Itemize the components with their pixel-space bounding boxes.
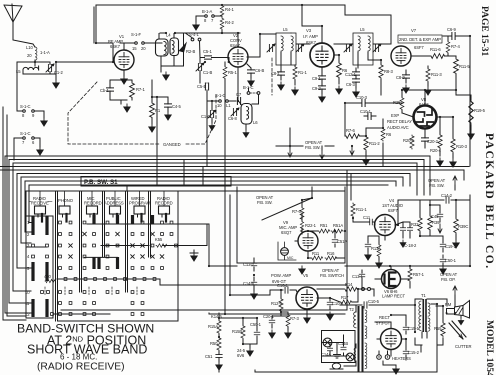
labels misc [237, 348, 246, 358]
svg-text:2ND. DET. & EXP. AMP: 2ND. DET. & EXP. AMP [399, 37, 441, 42]
resistor R11-2 [363, 136, 381, 165]
svg-text:C6-B: C6-B [255, 68, 264, 73]
switch blade diagonal [262, 187, 312, 220]
tube V3 [303, 28, 334, 67]
svg-text:C8-9: C8-9 [396, 75, 405, 80]
open at pb op label [440, 272, 458, 282]
tube V9 [279, 220, 318, 251]
variable capacitor C1-C [201, 101, 216, 130]
resistor R55 [155, 237, 167, 247]
button feed stubs [40, 191, 164, 206]
capacitor C50-2 [422, 129, 439, 148]
svg-text:C12-1: C12-1 [345, 72, 357, 77]
bus wire 5 [0, 170, 464, 180]
capacitor C6-B [247, 64, 264, 86]
resistor R14 [344, 282, 357, 291]
resistor R7-1 [130, 82, 146, 100]
ground [193, 22, 199, 30]
capacitor C13-1 [352, 270, 365, 282]
resistor R11-2t [425, 66, 443, 95]
matrix ground [190, 250, 198, 261]
tube V5 [296, 287, 318, 309]
column header radio record [155, 196, 173, 206]
matrix rails [26, 224, 347, 314]
resistor R22-1 [300, 221, 316, 233]
capacitor C12-1 [345, 68, 360, 79]
svg-text:C11: C11 [363, 215, 371, 220]
svg-text:R57-1: R57-1 [413, 272, 425, 277]
open at pb sw label right [428, 176, 457, 190]
right margin text [479, 6, 495, 375]
matrix box col2-6 [56, 191, 179, 321]
svg-text:P.B. SWITCH: P.B. SWITCH [320, 273, 344, 278]
transformer T2 secondary winding [365, 310, 367, 369]
resistor R25 [393, 90, 404, 113]
wire [110, 80, 132, 104]
bottom ground bus [219, 304, 437, 372]
svg-text:AUDIO AVC: AUDIO AVC [387, 125, 409, 130]
capacitor C5-E [197, 83, 209, 101]
contact row 8 [59, 302, 62, 305]
top bus wire [94, 5, 345, 62]
heaters label [377, 351, 411, 361]
push button 4 [110, 206, 121, 222]
svg-text:RECT: RECT [379, 315, 391, 320]
push button switch matrix [25, 191, 347, 321]
label box 2nd det [398, 35, 442, 50]
svg-text:EXP: EXP [391, 113, 399, 118]
svg-text:(RADIO RECEIVE): (RADIO RECEIVE) [37, 362, 125, 373]
svg-text:LAMP RECT: LAMP RECT [382, 294, 406, 299]
closed contact bars top [31, 216, 34, 235]
svg-text:B-1-C: B-1-C [243, 85, 254, 90]
svg-text:C15-1: C15-1 [408, 326, 420, 331]
resistor R51A [331, 223, 343, 233]
capacitor C8-1 [271, 65, 285, 90]
wire left feeders [17, 62, 35, 111]
resistor R7-6v [292, 207, 304, 220]
capacitor C10-5a [327, 298, 344, 320]
svg-text:6SA7: 6SA7 [230, 43, 241, 48]
svg-text:6SK7: 6SK7 [110, 44, 121, 49]
svg-text:R55: R55 [434, 326, 442, 331]
wire drop R5-1 to cluster [224, 84, 226, 195]
ground cluster [247, 348, 253, 356]
svg-text:R50: R50 [210, 341, 218, 346]
svg-text:T1: T1 [421, 293, 426, 298]
svg-text:V5: V5 [303, 273, 309, 278]
svg-text:C50-1: C50-1 [445, 258, 457, 263]
svg-text:B-1-A: B-1-A [202, 9, 213, 14]
open at pb sw label top [276, 128, 334, 159]
svg-text:R11-3: R11-3 [431, 72, 442, 77]
svg-text:R7-6: R7-6 [292, 209, 301, 214]
svg-text:15: 15 [132, 46, 137, 51]
capacitor C6-9 [443, 27, 470, 40]
variable resistor R2-B [161, 34, 195, 73]
microphone [278, 242, 296, 260]
svg-text:C50-1: C50-1 [250, 322, 262, 327]
wire L5a to V3 [291, 33, 310, 44]
resistor R19-5 [468, 100, 486, 139]
capacitor C14A [329, 343, 331, 348]
svg-text:C6-9: C6-9 [447, 27, 456, 32]
wire [35, 60, 56, 74]
svg-text:C-18-2: C-18-2 [404, 243, 417, 248]
svg-text:P.B. SW.: P.B. SW. [257, 200, 272, 205]
matrix top rail [26, 191, 178, 216]
closed contact bars col1 bottom [31, 299, 34, 317]
contact row 2 [59, 233, 62, 236]
svg-text:R1-1: R1-1 [298, 70, 307, 75]
svg-text:R15B: R15B [232, 329, 242, 334]
ground [53, 80, 59, 88]
wires V5 left [272, 290, 297, 316]
svg-text:20: 20 [27, 53, 32, 58]
resistor R11-1 [351, 203, 367, 217]
capacitor C9-1 under V3 [312, 67, 326, 86]
resistor 400 ohm [44, 274, 55, 283]
wires V6 [362, 266, 410, 288]
wires power section [415, 299, 447, 345]
wire drop bus corners [184, 160, 203, 187]
svg-text:20: 20 [141, 46, 146, 51]
trimmer cap left of L5a [267, 44, 275, 52]
ground V5 [304, 309, 310, 323]
tube V8 eye [414, 97, 437, 129]
closed contact bars mid [92, 257, 95, 269]
wire V3 to L5b [334, 44, 353, 55]
tube V6 [382, 270, 406, 299]
series capacitor C14-2 [398, 193, 470, 225]
svg-text:C16-1: C16-1 [277, 283, 289, 288]
svg-text:6 - 18 MC.: 6 - 18 MC. [60, 353, 97, 362]
resistor R11-6 [411, 47, 448, 58]
svg-text:S-1-C: S-1-C [20, 104, 31, 109]
capacitor C19-1 [440, 240, 456, 252]
push button 5 [134, 206, 145, 222]
svg-text:V3: V3 [306, 28, 312, 33]
capacitor C18-2 [400, 222, 406, 247]
svg-text:C1-B: C1-B [203, 70, 212, 75]
svg-text:RECORD: RECORD [84, 201, 102, 206]
capacitor C5-1 [200, 49, 229, 62]
tube V1 [108, 34, 134, 70]
resistor R6a [336, 55, 348, 94]
trimmer cap right of L5b [373, 44, 381, 52]
resistor R4-1 [220, 5, 234, 17]
svg-text:C6-3: C6-3 [346, 82, 355, 87]
svg-text:R51: R51 [320, 223, 328, 228]
svg-text:I.F. AMP: I.F. AMP [303, 34, 318, 39]
pilot lamp 1 [323, 338, 332, 347]
coil L6 [239, 101, 259, 137]
trimmer cap left of L5b [344, 44, 352, 52]
coil L10 [26, 45, 50, 60]
trimmer cap right of L5a [296, 44, 304, 52]
tube V7 [391, 28, 417, 66]
resistor R10-3 [450, 138, 468, 167]
wire drop V2 cathode [237, 67, 239, 101]
arrow up feed [453, 286, 457, 306]
cutter switch [449, 321, 471, 349]
variable capacitor C1-B [196, 58, 212, 84]
svg-text:R32: R32 [411, 222, 419, 227]
svg-text:10: 10 [217, 103, 222, 108]
svg-text:MIC: MIC [287, 256, 294, 260]
svg-text:L10: L10 [26, 45, 33, 50]
svg-text:R7-6: R7-6 [346, 128, 355, 133]
wire drop R1 junction [152, 97, 157, 186]
svg-text:R11A: R11A [371, 246, 381, 251]
svg-text:R4-1: R4-1 [225, 7, 234, 12]
wire V3 top [302, 5, 322, 43]
svg-text:C14B: C14B [338, 341, 348, 346]
svg-text:PROGRAM: PROGRAM [129, 201, 151, 206]
svg-text:5Y3-GT: 5Y3-GT [376, 321, 391, 326]
svg-text:P.B. OP.: P.B. OP. [441, 277, 455, 282]
resistor R16b [325, 251, 337, 260]
svg-text:R39C: R39C [458, 224, 468, 229]
svg-text:R5-1: R5-1 [228, 70, 237, 75]
svg-text:C6-8: C6-8 [228, 116, 237, 121]
resistor R39C [453, 218, 469, 248]
label rect [376, 315, 391, 326]
resistor R7-4 [446, 36, 460, 56]
svg-text:R14: R14 [345, 282, 353, 287]
svg-text:POW. AMP: POW. AMP [271, 273, 291, 278]
transformer T2 primary winding [344, 305, 356, 366]
svg-text:C1-C: C1-C [201, 114, 210, 119]
svg-text:R4-2: R4-2 [225, 20, 234, 25]
bus wire 1 [36, 156, 430, 195]
capacitor C4-5 [152, 97, 181, 120]
svg-text:S-1-F: S-1-F [131, 32, 142, 37]
wires V4 right [420, 200, 456, 240]
bus wire 4 [0, 166, 469, 168]
open at pb switch label [320, 268, 344, 278]
svg-text:R10-3: R10-3 [456, 144, 468, 149]
capacitor C10-3 [356, 95, 370, 107]
resistor R17 [340, 295, 352, 304]
push button 1 [35, 206, 46, 222]
label V4 [382, 198, 404, 213]
wire [23, 73, 56, 75]
dashed gang line [68, 58, 272, 144]
svg-text:ADDRESS: ADDRESS [104, 201, 124, 206]
plug contacts [362, 288, 375, 297]
svg-text:6AF6: 6AF6 [419, 102, 429, 107]
coil L4 [156, 33, 179, 67]
tube V10 rect [381, 329, 402, 350]
contact row 7 [41, 291, 44, 294]
svg-text:C1-2: C1-2 [54, 70, 63, 75]
svg-text:S-1-C: S-1-C [215, 93, 226, 98]
resistor R20-5 [403, 135, 415, 149]
push button 3 [87, 206, 98, 222]
capacitor C6-3 [346, 79, 360, 97]
column header mic record [84, 196, 102, 206]
row 7 dashed separators [45, 287, 137, 296]
svg-text:R2-B: R2-B [186, 49, 195, 54]
svg-text:MODEL 1054: MODEL 1054 [484, 320, 494, 375]
svg-text:L1: L1 [226, 103, 231, 108]
capacitor C45 [431, 210, 443, 233]
switch label box [81, 177, 231, 187]
resistor R7-3 [285, 314, 300, 338]
filter capacitor C15-1 [403, 320, 419, 334]
capacitor C51 [205, 351, 222, 370]
svg-text:C5-E: C5-E [197, 84, 206, 89]
series capacitor C10-5b [340, 299, 415, 308]
svg-text:R6: R6 [386, 132, 392, 137]
wire V2 to IF [247, 34, 276, 57]
transformer T2 core [349, 306, 364, 372]
bus left corners and feeders [5, 156, 60, 313]
column header public address [104, 196, 124, 206]
resistor R11b [311, 251, 323, 260]
svg-text:10: 10 [25, 290, 30, 295]
column header wired program [129, 196, 151, 206]
resistor R1-1 [292, 65, 308, 95]
svg-text:L6: L6 [253, 120, 258, 125]
svg-text:PAGE 15-31: PAGE 15-31 [479, 6, 489, 56]
svg-text:C15-2: C15-2 [408, 350, 420, 355]
capacitor C13-2 [243, 258, 257, 271]
svg-text:C4-5: C4-5 [172, 104, 181, 109]
bus wire 2 [40, 160, 424, 196]
ground inside box [334, 351, 341, 358]
svg-text:C10-1: C10-1 [360, 109, 372, 114]
IF transformer L5a [276, 27, 296, 65]
cluster K14-5 [209, 313, 222, 320]
capacitor C18-3 [404, 222, 417, 248]
svg-text:R11: R11 [312, 251, 320, 256]
variable capacitor C6-8 [228, 108, 239, 121]
capacitor 103-1 [360, 109, 376, 120]
resistor R15B [232, 325, 245, 339]
ground [124, 104, 130, 112]
coil L5 [16, 60, 39, 74]
tube V4 [375, 215, 396, 236]
svg-text:K55: K55 [155, 237, 163, 242]
resistor R4-2 [220, 18, 234, 34]
svg-text:PACKARD BELL CO.: PACKARD BELL CO. [483, 133, 495, 270]
svg-text:R11-2: R11-2 [369, 141, 380, 146]
capacitor Y9-1 under V3 [312, 86, 326, 102]
resistor R11A [371, 244, 382, 268]
capacitor C50-1b [440, 255, 457, 274]
contact row 4 [32, 255, 35, 258]
contact row 3 [32, 244, 35, 247]
matrix outer box [26, 216, 53, 318]
switch S1-C b [14, 131, 40, 147]
wire L5b to V7 [368, 44, 391, 60]
contact row 9 [51, 313, 54, 316]
svg-text:RECT DELAY: RECT DELAY [387, 119, 412, 124]
svg-text:R51A: R51A [333, 223, 343, 228]
resistor R39 [428, 215, 440, 231]
svg-text:R19-5: R19-5 [474, 108, 486, 113]
ground heaters [383, 361, 399, 374]
svg-text:12: 12 [25, 312, 30, 317]
capacitor C8-9 [396, 70, 410, 93]
svg-text:HEATERS: HEATERS [392, 356, 411, 361]
bus wire 7 [52, 177, 403, 186]
wires V8 area [345, 90, 471, 166]
svg-text:GANGED: GANGED [163, 142, 181, 147]
wire k cluster top [209, 195, 345, 318]
svg-text:C9-1: C9-1 [312, 76, 321, 81]
long wire y266 [209, 195, 470, 266]
wire top row [160, 33, 240, 43]
svg-text:C14-6: C14-6 [243, 281, 255, 286]
bus wire 8 [56, 181, 396, 186]
svg-text:C10-5: C10-5 [368, 299, 380, 304]
resistor R1 [149, 80, 161, 132]
capacitor C11c [365, 240, 371, 260]
wire right edge [345, 5, 470, 166]
resistor R11-5 [448, 56, 470, 95]
svg-text:R17: R17 [341, 295, 349, 300]
contact B-1-A [196, 9, 222, 23]
svg-text:C5-1: C5-1 [203, 49, 212, 54]
bus wire 3 [44, 163, 417, 195]
ground under L4 [163, 72, 169, 80]
pilot lamp box [321, 331, 355, 363]
wire grid cap V1 [113, 43, 128, 62]
svg-text:R11-6: R11-6 [430, 47, 441, 52]
extension box [127, 186, 345, 191]
variable capacitor C1-2 [35, 62, 63, 75]
resistor R20-6 [430, 134, 443, 166]
wires V5 right [317, 289, 364, 302]
svg-text:P.B. SW.: P.B. SW. [305, 145, 320, 150]
resistor R55v [434, 322, 445, 337]
svg-text:6V6: 6V6 [237, 353, 245, 358]
svg-text:R16: R16 [327, 251, 335, 256]
contact row 1 [59, 221, 62, 224]
transformer T1 [419, 293, 430, 332]
push button 2 [59, 206, 70, 222]
filter capacitor C15-2 [403, 345, 419, 360]
ground [41, 118, 47, 126]
ground [299, 266, 305, 274]
svg-text:PHONO: PHONO [58, 198, 74, 203]
wires rect [375, 315, 421, 356]
contact S-1-C c [207, 93, 236, 108]
svg-text:R8-3: R8-3 [384, 69, 393, 74]
svg-text:R12-6: R12-6 [271, 301, 283, 306]
contact row 5 [59, 267, 62, 270]
resistor R12-6 [271, 298, 283, 312]
wire rails right [171, 224, 210, 266]
wire to V1 [56, 61, 113, 63]
svg-text:C51A: C51A [337, 239, 347, 244]
open at pb sw label [256, 195, 274, 205]
svg-text:R7-3: R7-3 [290, 316, 299, 321]
resistor R6b [381, 128, 392, 141]
svg-text:P.B. SW. S1: P.B. SW. S1 [84, 179, 118, 186]
svg-text:C10-3: C10-3 [356, 95, 368, 100]
series capacitor C16-1 [270, 283, 296, 293]
svg-text:6SF7: 6SF7 [414, 45, 424, 50]
caption text block [17, 322, 154, 373]
svg-text:6SK7: 6SK7 [306, 40, 317, 45]
IF transformer L5b [353, 27, 373, 68]
capacitor C20-1 [263, 314, 275, 338]
wires cluster [219, 318, 257, 348]
